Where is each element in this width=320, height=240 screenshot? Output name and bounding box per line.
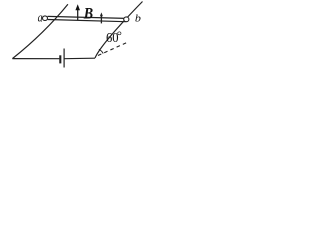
- svg-text:b: b: [135, 13, 141, 24]
- svg-text:a: a: [38, 12, 43, 25]
- svg-text:°: °: [117, 27, 122, 42]
- svg-text:B: B: [83, 6, 93, 23]
